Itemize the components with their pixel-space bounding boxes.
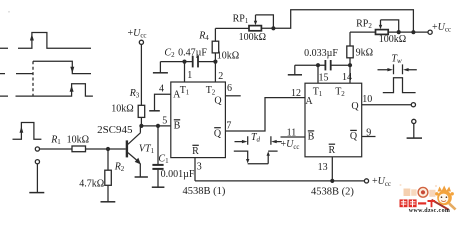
watermark logo ghost ring	[418, 187, 428, 197]
IC U2 4538B (2) body	[305, 83, 362, 157]
svg-text:100kΩ: 100kΩ	[379, 34, 406, 45]
pin 15 wire (U2 T1)	[317, 65, 319, 83]
waveform Tw pulse	[383, 78, 416, 93]
ground (output)	[407, 137, 422, 139]
node RP1 wiper junction	[271, 26, 275, 30]
capacitor C1	[152, 126, 163, 187]
watermark ghost glyphs	[400, 184, 438, 197]
transistor Q1 (VT1 2SC945)	[127, 126, 141, 177]
waveform sketch W1 (trigger pulse)	[0, 33, 91, 49]
node top rail to Ucc junction	[411, 30, 415, 34]
pin 7 wire (U1 Qbar to U2 A)	[225, 98, 305, 131]
scan speck top-left	[8, 11, 10, 13]
svg-text:10kΩ: 10kΩ	[67, 134, 89, 145]
svg-text:Q: Q	[351, 101, 359, 112]
wire collector to pin5 B1	[141, 125, 170, 127]
power +Ucc terminal (right)	[428, 30, 432, 34]
svg-text:VT1: VT1	[139, 144, 155, 156]
wire R4 to RP1	[215, 27, 249, 29]
svg-text:12: 12	[291, 88, 301, 99]
node base junction	[106, 147, 110, 151]
svg-text:0.47µF: 0.47µF	[178, 48, 207, 59]
IC U1 4538B (1) body	[171, 82, 226, 158]
svg-text:3: 3	[197, 161, 202, 172]
svg-text:0.001µF: 0.001µF	[161, 169, 195, 180]
label Bbar (U1)	[174, 120, 181, 132]
node RP2 wiper junction	[397, 30, 401, 34]
svg-text:R2: R2	[114, 161, 125, 173]
svg-text:9kΩ: 9kΩ	[356, 47, 373, 58]
svg-text:Q: Q	[214, 128, 222, 139]
svg-text:4.7kΩ: 4.7kΩ	[79, 178, 104, 189]
svg-text:www.dzsc.com: www.dzsc.com	[409, 208, 451, 214]
wire input to R1	[40, 148, 73, 150]
pin 4 wire and ground bracket (U1 A)	[149, 94, 171, 111]
svg-text:+Ucc: +Ucc	[372, 176, 391, 188]
svg-text:B: B	[174, 121, 181, 132]
wire Ucc to R3	[140, 44, 142, 105]
label Qbar (U2)	[350, 130, 358, 142]
ground (C1)	[152, 186, 165, 188]
node collector junction	[139, 124, 143, 128]
svg-text:R: R	[328, 145, 335, 156]
svg-text:R: R	[192, 146, 199, 157]
pin 1 wire (U1 T1)	[184, 62, 186, 82]
ground (C2 left)	[153, 72, 168, 74]
waveform sketch W2 (delay pulse)	[0, 61, 91, 96]
svg-text:RP2: RP2	[356, 18, 372, 30]
pin 3 wire (U1 Rbar)	[194, 158, 196, 181]
node pin2 junction	[213, 60, 217, 64]
svg-text:13: 13	[318, 162, 328, 173]
svg-text:2: 2	[218, 71, 223, 82]
power +Ucc terminal (left)	[139, 40, 143, 44]
pin 10 wire (U2 Q to output)	[362, 104, 412, 106]
svg-text:5: 5	[162, 116, 167, 127]
dimension Td between ICs	[235, 136, 282, 145]
watermark mascot	[435, 186, 456, 211]
label Bbar (U2)	[308, 131, 315, 143]
svg-text:4538B (2): 4538B (2)	[311, 186, 354, 197]
watermark text wei-ku-yi-xia	[400, 199, 436, 207]
svg-text:6: 6	[227, 83, 232, 94]
svg-text:7: 7	[226, 121, 231, 132]
pin 14 wire (U2 T2)	[349, 65, 351, 83]
label Rbar (U2)	[328, 144, 335, 156]
input trigger pulse symbol	[13, 123, 42, 140]
node pin1 junction	[182, 60, 186, 64]
svg-text:Q: Q	[350, 131, 358, 142]
wire RP1 to top rail	[261, 10, 413, 33]
input terminal (signal)	[35, 147, 39, 151]
potentiometer RP1	[249, 15, 273, 31]
svg-text:4538B (1): 4538B (1)	[182, 186, 225, 197]
svg-text:R1: R1	[50, 134, 61, 146]
svg-text:10kΩ: 10kΩ	[217, 51, 239, 62]
resistor R3	[138, 105, 145, 117]
label Qbar (U1)	[214, 128, 222, 140]
wire 9k to RP2	[350, 31, 376, 33]
svg-text:+Ucc: +Ucc	[281, 139, 300, 151]
pin 13 wire (U2 Rbar)	[331, 157, 333, 181]
waveform sketch W3 (output pulse)	[0, 84, 93, 96]
resistor R5 9k ohm	[347, 32, 353, 65]
node pin13 junction	[330, 179, 334, 183]
ground (emitter)	[135, 176, 148, 178]
wire R3 to collector node	[140, 117, 142, 126]
svg-text:Tw: Tw	[391, 54, 402, 65]
waveform Td pulse	[234, 151, 278, 164]
svg-text:Td: Td	[251, 132, 261, 144]
svg-text:2SC945: 2SC945	[97, 124, 133, 136]
label Rbar (U1)	[192, 145, 199, 157]
wire ground terminal down	[36, 164, 38, 193]
node pin15 junction	[316, 63, 320, 67]
node C1 junction	[156, 124, 160, 128]
potentiometer RP2	[376, 20, 429, 35]
svg-text:11: 11	[287, 127, 297, 138]
wire bottom rail R pins to +Ucc	[195, 180, 364, 182]
svg-text:+Ucc: +Ucc	[127, 28, 146, 40]
ground (input)	[29, 192, 44, 194]
resistor R4	[212, 28, 219, 61]
ground (R2)	[101, 201, 116, 203]
svg-text:0.033µF: 0.033µF	[304, 48, 338, 59]
svg-text:RP1: RP1	[233, 14, 249, 26]
wire output ground terminal down	[413, 124, 415, 139]
output terminal (Q signal)	[411, 103, 415, 107]
svg-text:1: 1	[187, 70, 192, 81]
svg-text:10kΩ: 10kΩ	[111, 103, 133, 114]
svg-text:A: A	[305, 96, 313, 107]
svg-text:14: 14	[342, 72, 352, 83]
svg-text:10: 10	[362, 94, 372, 105]
svg-text:Q: Q	[214, 96, 222, 107]
svg-text:100kΩ: 100kΩ	[239, 32, 266, 43]
svg-text:15: 15	[319, 72, 329, 83]
ground (C3 left)	[288, 74, 302, 76]
svg-text:R4: R4	[198, 31, 209, 43]
wire R1 to base node	[86, 148, 126, 150]
pin 11 wire (U2 Bbar)	[281, 136, 306, 138]
svg-text:C1: C1	[158, 153, 169, 165]
node pin14 junction	[348, 63, 352, 67]
output terminal (ground side)	[412, 119, 416, 123]
pin 6 wire (U1 Q stub)	[225, 95, 240, 97]
dimension Tw at output	[378, 64, 417, 74]
input terminal (ground side)	[35, 160, 39, 164]
svg-text:+Ucc: +Ucc	[432, 22, 451, 34]
power +Ucc terminal (bottom)	[364, 179, 368, 183]
svg-text:9: 9	[366, 127, 371, 138]
svg-text:R3: R3	[129, 88, 140, 100]
watermark pen stroke	[432, 200, 449, 210]
capacitor C2 with wires	[160, 56, 215, 73]
svg-text:C2: C2	[164, 48, 175, 60]
pin 9 wire (U2 Qbar stub)	[362, 136, 376, 138]
svg-text:4: 4	[159, 83, 164, 94]
resistor R2	[105, 149, 112, 202]
pin 2 wire (U1 T2)	[214, 62, 216, 82]
capacitor C3 0.033uF with wires	[295, 60, 350, 75]
svg-text:B: B	[308, 132, 315, 143]
resistor R1	[72, 146, 86, 152]
